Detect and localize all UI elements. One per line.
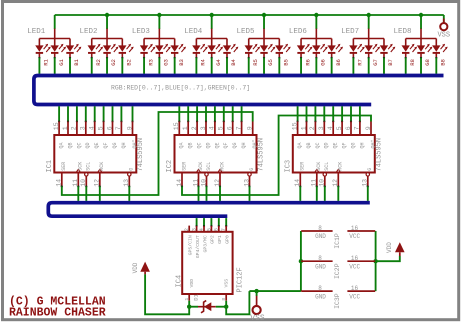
wire IC2 pin 12 to bus	[219, 187, 221, 201]
IC4 pin 6 GP1	[218, 218, 220, 226]
svg-text:1: 1	[62, 126, 69, 130]
LED diode G1	[54, 39, 56, 46]
IC3 pin 7 QH	[359, 122, 361, 136]
svg-text:RCK: RCK	[99, 162, 105, 171]
svg-text:SER: SER	[300, 162, 306, 171]
svg-text:R5: R5	[252, 59, 259, 66]
op IC3 74LS595N body	[293, 135, 375, 173]
IC4 pin 8 VSS	[225, 294, 227, 301]
svg-text:16: 16	[351, 255, 359, 262]
IC2 pin 15 QA	[178, 122, 180, 136]
svg-text:8: 8	[221, 298, 227, 301]
svg-text:8: 8	[318, 285, 322, 292]
wire net IC3 QH* to IC2 SER	[182, 116, 371, 196]
svg-text:SCK: SCK	[78, 162, 84, 171]
IC1 pin 7 QH	[120, 122, 122, 136]
svg-text:R8: R8	[409, 59, 416, 66]
junction LED5 rail	[262, 13, 266, 17]
LED diode B7	[383, 39, 385, 46]
LED diode R5	[248, 39, 250, 46]
IC2 pin 6 QG	[232, 122, 234, 136]
svg-text:G8: G8	[424, 59, 431, 66]
IC1 pin 1 QB	[67, 122, 69, 136]
IC2 pin 9 QH*	[252, 122, 254, 136]
svg-text:9: 9	[247, 126, 254, 130]
wire R2 cathode to bus	[91, 57, 93, 59]
IC1 pin 12 RCK	[99, 173, 101, 187]
svg-text:2: 2	[191, 126, 198, 130]
svg-text:R3: R3	[147, 59, 154, 66]
LED4 anode rail	[211, 29, 213, 39]
wire rail drop LED1	[54, 15, 56, 29]
op IC2 74LS595N body	[175, 135, 257, 173]
IC1 pin 2 QC	[76, 122, 78, 136]
svg-text:9: 9	[365, 126, 372, 130]
IC1 pin 13 G	[128, 173, 131, 176]
wire bus to IC1 pin 3	[85, 106, 87, 121]
svg-text:B2: B2	[126, 59, 133, 66]
svg-text:QE: QE	[214, 142, 220, 148]
svg-text:2: 2	[71, 126, 78, 130]
wire R6 cathode to bus	[300, 57, 302, 59]
svg-text:SCL: SCL	[86, 162, 92, 171]
svg-text:74LS595N: 74LS595N	[257, 138, 265, 172]
svg-text:LED4: LED4	[184, 28, 203, 36]
svg-text:VSS: VSS	[223, 279, 229, 288]
svg-text:R6: R6	[304, 59, 311, 66]
LED diode R8	[405, 39, 407, 46]
svg-text:QG: QG	[112, 142, 118, 148]
svg-text:SCL: SCL	[206, 162, 212, 171]
svg-text:QF: QF	[342, 142, 348, 148]
wire R7 cathode to bus	[352, 57, 354, 59]
svg-text:QC: QC	[315, 142, 321, 148]
wire bus to IC1 pin 6	[112, 106, 114, 121]
LED diode R1	[38, 39, 40, 46]
junction LED6 rail	[314, 13, 318, 17]
LED2 anode rail	[106, 29, 108, 39]
IC2 pin 5 QF	[223, 122, 225, 136]
svg-text:SCK: SCK	[198, 162, 204, 171]
svg-text:B5: B5	[283, 59, 290, 66]
IC3 pin 14 SER	[299, 173, 301, 187]
wire rail drop LED6	[315, 15, 317, 29]
svg-text:R7: R7	[357, 59, 364, 66]
wire B3 cathode to bus	[174, 57, 176, 59]
wire bus to IC3 pin 1	[306, 106, 308, 121]
wire VSS rail bottom	[249, 290, 301, 292]
svg-text:3: 3	[318, 126, 325, 130]
svg-text:74LS595N: 74LS595N	[376, 138, 384, 172]
junction GND rail	[299, 259, 303, 263]
wire B4 cathode to bus	[226, 57, 228, 59]
svg-text:1: 1	[182, 126, 189, 130]
svg-text:GND: GND	[315, 293, 326, 300]
wire bus to IC1 pin 4	[94, 106, 96, 121]
IC2 pin 14 SER	[181, 173, 183, 187]
LED diode R7	[352, 39, 354, 46]
wire IC1 pin 12 to bus	[99, 187, 101, 201]
IC3 pin 4 QE	[332, 122, 334, 136]
svg-text:B7: B7	[387, 59, 394, 66]
IC4 pin 7 GP0	[225, 218, 227, 226]
svg-text:QA: QA	[59, 142, 65, 148]
svg-text:GP3/MC: GP3/MC	[202, 235, 208, 252]
svg-text:VDD: VDD	[386, 242, 393, 253]
wire IC2 pin 13 to bus	[249, 187, 251, 201]
junction IC4 pin1 D1	[187, 305, 191, 309]
wire IC1 pin 10 to bus	[85, 187, 87, 201]
IC2P pin 8 GND	[301, 260, 332, 262]
svg-text:QG: QG	[232, 142, 238, 148]
svg-text:IC3P: IC3P	[334, 293, 341, 309]
IC2 pin 2 QC	[196, 122, 198, 136]
svg-text:VSS: VSS	[437, 32, 450, 40]
svg-text:G7: G7	[372, 59, 379, 66]
LED diode B3	[174, 39, 176, 46]
IC1 pin 11 SCK	[77, 173, 79, 187]
bus shift register control	[48, 203, 370, 217]
wire rail to VSS	[443, 15, 445, 23]
IC2 pin 4 QE	[214, 122, 216, 136]
wire B2 cathode to bus	[121, 57, 123, 59]
wire IC2 pin 11 to bus	[198, 187, 200, 201]
junction D1 IC4 pin8	[224, 305, 228, 309]
wire G3 cathode to bus	[158, 57, 160, 59]
svg-text:4: 4	[209, 126, 216, 130]
wire rail drop LED2	[106, 15, 108, 29]
IC3 pin 15 QA	[297, 122, 299, 136]
wire IC3 pin 10 to bus	[324, 187, 326, 201]
IC2 pin 10 SCL	[205, 173, 208, 176]
wire R5 cathode to bus	[248, 57, 250, 59]
LED8 anode rail	[420, 29, 422, 39]
junction VSS symbol	[254, 289, 258, 293]
svg-text:LED3: LED3	[132, 28, 151, 36]
LED diode G6	[315, 39, 317, 46]
wire IC1 pin 11 to bus	[77, 187, 79, 201]
svg-text:74LS595N: 74LS595N	[137, 138, 145, 172]
svg-text:G: G	[249, 168, 255, 171]
op IC4 PIC12F body	[182, 232, 232, 294]
svg-text:B6: B6	[335, 59, 342, 66]
svg-text:VCC: VCC	[349, 293, 360, 300]
IC3 pin 12 RCK	[337, 173, 339, 187]
IC2P pin 16 VCC	[347, 260, 375, 262]
wire GND rail	[300, 231, 302, 291]
LED diode R6	[300, 39, 302, 46]
IC3 pin 10 SCL	[323, 173, 326, 176]
LED5 anode rail	[263, 29, 265, 39]
svg-text:D1: D1	[192, 293, 199, 300]
wire VCC to VDD	[376, 256, 400, 261]
svg-text:QE: QE	[333, 142, 339, 148]
wire bus to IC3 pin 4	[332, 106, 334, 121]
svg-text:8: 8	[318, 255, 322, 262]
svg-text:G5: G5	[267, 59, 274, 66]
wire bus to IC2 pin 15	[178, 106, 180, 121]
IC3 pin 5 QF	[341, 122, 343, 136]
svg-text:QE: QE	[94, 142, 100, 148]
wire rail drop LED7	[368, 15, 370, 29]
wire bus to IC2 pin 6	[232, 106, 234, 121]
wire G1 cathode to bus	[54, 57, 56, 59]
svg-text:8: 8	[318, 225, 322, 232]
wire bus to IC2 pin 2	[196, 106, 198, 121]
wire IC3 pin 14 to bus	[299, 187, 301, 201]
IC1 pin 3 QD	[85, 122, 87, 136]
svg-text:GP0: GP0	[225, 235, 231, 244]
svg-text:RAINBOW CHASER: RAINBOW CHASER	[9, 306, 106, 319]
wire bus to IC3 pin 6	[350, 106, 352, 121]
svg-text:IC2P: IC2P	[334, 263, 341, 279]
svg-text:PIC12F: PIC12F	[237, 267, 245, 292]
svg-text:IC3: IC3	[284, 160, 292, 173]
svg-text:SCL: SCL	[324, 162, 330, 171]
svg-text:15: 15	[173, 122, 180, 130]
junction VCC rail	[373, 259, 377, 263]
IC3 pin 6 QG	[350, 122, 352, 136]
op IC1 74LS595N body	[54, 135, 136, 173]
svg-text:IC4: IC4	[176, 275, 184, 288]
IC2 pin 13 G	[248, 173, 251, 176]
wire bus to IC1 pin 5	[103, 106, 105, 121]
svg-text:R2: R2	[95, 59, 102, 66]
wire bus to IC3 pin 15	[297, 106, 299, 121]
wire net IC2 QH* to IC1 SER	[62, 112, 253, 195]
IC1 pin 15 QA	[58, 122, 60, 136]
svg-text:SER: SER	[181, 162, 187, 171]
LED diode G8	[420, 39, 422, 46]
svg-text:15: 15	[53, 122, 60, 130]
svg-text:QF: QF	[223, 142, 229, 148]
wire bus to IC2 pin 7	[241, 106, 243, 121]
wire bus to IC2 pin 3	[205, 106, 207, 121]
wire IC1 pin 9 to bus	[132, 106, 134, 121]
IC3P pin 16 VCC	[347, 290, 375, 292]
svg-text:R1: R1	[43, 58, 50, 65]
junction LED2 rail	[105, 13, 109, 17]
wire bus to IC3 pin 5	[341, 106, 343, 121]
IC3 pin 3 QD	[323, 122, 325, 136]
wire IC4 pin1 junction	[188, 301, 190, 307]
svg-text:G: G	[129, 168, 135, 171]
svg-text:LED7: LED7	[341, 28, 359, 36]
IC4 pin 3 GP4/COUT	[196, 218, 198, 226]
IC2 pin 12 RCK	[219, 173, 221, 187]
IC2 pin 11 SCK	[198, 173, 200, 187]
svg-text:4: 4	[327, 126, 334, 130]
svg-text:GND: GND	[315, 263, 326, 270]
wire bus to IC2 pin 4	[214, 106, 216, 121]
svg-text:RCK: RCK	[338, 162, 344, 171]
svg-text:4: 4	[89, 126, 96, 130]
svg-text:G6: G6	[320, 59, 327, 66]
svg-text:VDD: VDD	[189, 279, 195, 288]
wire B1 cathode to bus	[69, 57, 71, 59]
wire VCC rail	[375, 231, 377, 291]
LED diode R2	[91, 39, 93, 46]
svg-text:RCK: RCK	[219, 162, 225, 171]
wire anode supply rail	[55, 14, 444, 16]
LED diode B1	[69, 39, 71, 46]
IC1 pin 14 SER	[61, 173, 63, 187]
wire B5 cathode to bus	[278, 57, 280, 59]
svg-text:LED5: LED5	[237, 28, 256, 36]
svg-text:GP2: GP2	[210, 235, 216, 244]
LED diode G3	[158, 39, 160, 46]
wire bus to IC3 pin 2	[314, 106, 316, 121]
svg-text:R4: R4	[200, 58, 207, 65]
LED diode B6	[331, 39, 333, 46]
IC1 pin 9 QH*	[132, 122, 134, 136]
wire G7 cathode to bus	[368, 57, 370, 59]
svg-text:QA: QA	[297, 142, 303, 148]
wire bus to IC1 pin 1	[67, 106, 69, 121]
wire R4 cathode to bus	[195, 57, 197, 59]
svg-text:5: 5	[336, 126, 343, 130]
svg-text:QA: QA	[179, 142, 185, 148]
svg-text:5: 5	[218, 126, 225, 130]
wire R8 cathode to bus	[405, 57, 407, 59]
svg-text:QB: QB	[306, 142, 312, 148]
wire bus to IC1 pin 7	[120, 106, 122, 121]
wire rail drop LED4	[211, 15, 213, 29]
LED diode R4	[195, 39, 197, 46]
supply VDD left	[140, 262, 150, 272]
LED diode G7	[368, 39, 370, 46]
wire G4 cathode to bus	[211, 57, 213, 59]
LED6 anode rail	[315, 29, 317, 39]
wire IC3 pin 11 to bus	[316, 187, 318, 201]
svg-text:7: 7	[115, 126, 122, 130]
junction LED4 rail	[209, 13, 213, 17]
wire IC4 pin8 to VSS	[226, 291, 249, 314]
IC3 pin 9 QH*	[370, 122, 372, 136]
svg-text:6: 6	[227, 126, 234, 130]
svg-text:LED8: LED8	[394, 28, 412, 36]
junction LED7 rail	[366, 13, 370, 17]
wire R1 cathode to bus	[38, 57, 40, 59]
wire rail drop LED5	[263, 15, 265, 29]
IC4 pin 2 GP5/CIN	[188, 226, 190, 232]
wire bus to IC2 pin 1	[187, 106, 189, 121]
IC1 pin 4 QE	[94, 122, 96, 136]
LED diode G5	[263, 39, 265, 46]
bus RGB:RED[0..7],BLUE[0..7],GREEN[0..7]	[34, 76, 444, 105]
IC1 pin 10 SCL	[85, 173, 88, 176]
svg-text:QB: QB	[67, 142, 73, 148]
wire B7 cathode to bus	[383, 57, 385, 59]
svg-text:VSS: VSS	[250, 314, 265, 323]
IC1P pin 16 VCC	[347, 230, 375, 232]
IC1 pin 6 QG	[112, 122, 114, 136]
svg-text:QH: QH	[121, 142, 127, 148]
LED diode R3	[143, 39, 145, 46]
supply VDD right	[395, 242, 405, 252]
svg-text:B4: B4	[230, 58, 237, 65]
svg-text:G3: G3	[163, 59, 170, 66]
wire bus to IC3 pin 7	[359, 106, 361, 121]
IC3 pin 1 QB	[306, 122, 308, 136]
supply VSS top-right	[443, 19, 445, 23]
junction LED8 rail	[419, 13, 423, 17]
svg-text:QC: QC	[197, 142, 203, 148]
IC3 pin 13 G	[366, 173, 369, 176]
svg-text:6: 6	[345, 126, 352, 130]
svg-text:9: 9	[126, 126, 133, 130]
svg-text:VCC: VCC	[349, 233, 360, 240]
wire IC2 pin 10 to bus	[206, 187, 208, 201]
wire IC1 pin 13 to bus	[128, 187, 130, 201]
LED diode B2	[121, 39, 123, 46]
IC1 pin 5 QF	[103, 122, 105, 136]
wire IC3 pin 12 to bus	[337, 187, 339, 201]
LED diode G4	[211, 39, 213, 46]
svg-text:B3: B3	[178, 59, 185, 66]
svg-text:QF: QF	[103, 142, 109, 148]
svg-text:QD: QD	[85, 142, 91, 148]
wire bus to IC1 pin 15	[58, 106, 60, 121]
svg-text:3: 3	[80, 126, 87, 130]
wire B8 cathode to bus	[435, 57, 437, 59]
IC2 pin 1 QB	[187, 122, 189, 136]
svg-text:G2: G2	[110, 59, 117, 66]
IC2 pin 3 QD	[205, 122, 207, 136]
LED diode B4	[226, 39, 228, 46]
wire bus to IC3 pin 3	[323, 106, 325, 121]
LED diode B8	[435, 39, 437, 46]
svg-text:B1: B1	[73, 58, 80, 65]
wire bus to IC2 pin 5	[223, 106, 225, 121]
svg-text:QH: QH	[359, 142, 365, 148]
svg-text:QD: QD	[205, 142, 211, 148]
wire G8 cathode to bus	[420, 57, 422, 59]
svg-text:G1: G1	[58, 58, 65, 65]
svg-text:1: 1	[184, 298, 190, 301]
IC3 pin 2 QC	[314, 122, 316, 136]
diode D1	[189, 306, 198, 308]
svg-text:IC1: IC1	[46, 160, 54, 173]
svg-text:16: 16	[351, 225, 359, 232]
wire B6 cathode to bus	[331, 57, 333, 59]
svg-text:7: 7	[354, 126, 361, 130]
svg-text:GP5/CIN: GP5/CIN	[188, 235, 194, 255]
svg-text:LED6: LED6	[289, 28, 308, 36]
svg-text:QG: QG	[350, 142, 356, 148]
svg-text:LED1: LED1	[27, 28, 46, 36]
svg-text:7: 7	[235, 126, 242, 130]
IC4 pin 4 GP3/MC	[203, 218, 205, 226]
svg-text:LED2: LED2	[80, 28, 98, 36]
svg-text:QC: QC	[76, 142, 82, 148]
supply VSS bottom	[256, 291, 258, 296]
svg-text:QD: QD	[324, 142, 330, 148]
LED3 anode rail	[158, 29, 160, 39]
svg-text:GP4/COUT: GP4/COUT	[195, 235, 201, 258]
svg-text:VDD: VDD	[132, 262, 139, 273]
svg-text:QB: QB	[188, 142, 194, 148]
svg-text:SCK: SCK	[316, 162, 322, 171]
svg-text:16: 16	[351, 285, 359, 292]
svg-text:VCC: VCC	[349, 263, 360, 270]
IC1P pin 8 GND	[301, 230, 332, 232]
svg-text:G4: G4	[215, 58, 222, 65]
wire VDD to IC4 pin1	[145, 274, 189, 314]
svg-text:SER: SER	[61, 162, 67, 171]
wire rail drop LED8	[420, 15, 422, 29]
LED diode G2	[106, 39, 108, 46]
